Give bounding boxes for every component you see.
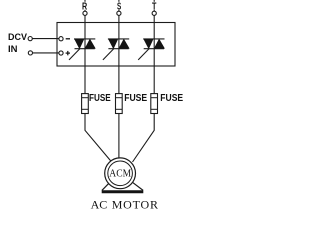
terminal circle S [117,11,121,15]
svg-text:DCV: DCV [8,32,27,42]
label R [82,1,88,12]
svg-text:AC: AC [91,197,108,211]
plus sign [66,51,70,55]
svg-text:ACM: ACM [109,168,131,179]
wire fuse F2 to motor [118,114,120,159]
svg-text:S: S [117,1,121,12]
svg-text:IN: IN [8,44,18,55]
terminal circle plus [59,51,63,55]
label FUSE F3 [160,93,183,104]
terminal circle IN [28,51,32,55]
fuse F2 [116,94,123,114]
wire T to triac Q3 [153,15,155,93]
wire fuse F3 to motor [133,114,155,163]
wire fuse F1 to motor [85,114,113,164]
svg-text:FUSE: FUSE [160,93,183,104]
fuse F1 [82,94,89,114]
svg-text:R: R [82,1,88,12]
label FUSE F1 [89,93,111,104]
motor M1 outer circle [105,158,136,189]
label S [117,1,121,12]
motor stand [102,182,144,194]
wire R to triac Q1 [84,15,86,93]
triac Q1 [69,39,95,60]
wire phase S drop [115,0,123,11]
terminal circle T [152,11,156,15]
label AC MOTOR [91,197,158,211]
label ACM [109,168,131,179]
svg-text:FUSE: FUSE [124,93,147,104]
label FUSE F2 [124,93,147,104]
wire phase R drop [81,0,89,11]
terminal circle DCV [28,37,32,41]
triac Q3 [138,39,164,60]
label T [152,1,156,12]
terminal circle minus [59,37,63,41]
terminal circle R [83,11,87,15]
fuse F3 [151,94,158,114]
controller box U1 [57,23,175,67]
wire phase T drop [151,0,159,11]
svg-text:MOTOR: MOTOR [112,197,158,211]
wire DCV to box [32,38,59,40]
label IN [8,44,18,55]
motor M1 inner circle [108,161,133,186]
label DCV [8,32,27,42]
minus sign [66,38,70,40]
wire S to triac Q2 [118,15,120,93]
wire IN to box [33,52,59,54]
svg-text:FUSE: FUSE [89,93,111,104]
triac Q2 [103,39,129,60]
